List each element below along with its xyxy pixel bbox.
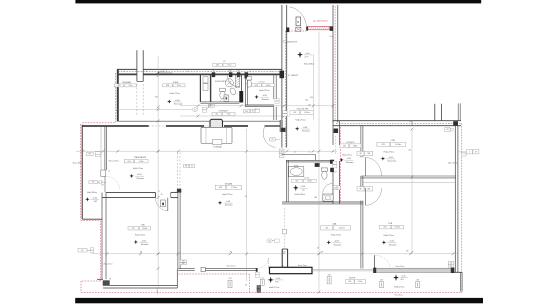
- svg-text:Мозайка: Мозайка: [334, 243, 342, 246]
- red dashed inside cross wall: [336, 122, 462, 124]
- svg-text:ПХД.З.КВ.ЛНЕ: ПХД.З.КВ.ЛНЕ: [297, 108, 309, 110]
- svg-text:ТРАПЕЗАРИЯ: ТРАПЕЗАРИЯ: [134, 156, 147, 159]
- partition wall R1 R2 vertical: [360, 126, 362, 158]
- red dashed step left wing: [82, 122, 115, 124]
- vert dim x313 entry: [312, 54, 314, 120]
- svg-text:Hсм+Юсм: Hсм+Юсм: [394, 295, 403, 297]
- su1 left wall: [244, 75, 246, 105]
- SM box right side: [445, 128, 450, 132]
- svg-text:240: 240: [305, 99, 308, 101]
- SI oval and box: [267, 239, 272, 243]
- lower left wall double: [101, 193, 103, 280]
- bottom left column: [103, 280, 110, 285]
- table komida: [201, 127, 232, 143]
- svg-text:004: 004: [384, 227, 387, 229]
- svg-text:H=A+268см: H=A+268см: [295, 193, 306, 196]
- svg-text:САЛОН: САЛОН: [349, 277, 356, 280]
- bathroom door arc: [323, 184, 332, 194]
- left end cap box: [201, 267, 205, 271]
- glazed parapet right: [376, 268, 453, 272]
- svg-text:-0.08: -0.08: [262, 95, 266, 97]
- dim line hall corridor: [180, 105, 333, 107]
- svg-text:Мозайка: Мозайка: [225, 204, 233, 207]
- svg-text:H=A+275см: H=A+275см: [259, 89, 270, 92]
- svg-text:14.27м²: 14.27м²: [339, 227, 346, 230]
- sill block white with black border: [270, 267, 313, 273]
- svg-text:-0.08: -0.08: [303, 127, 307, 129]
- svg-text:Мозайка: Мозайка: [346, 161, 354, 164]
- trapezaria door symbol box: [161, 200, 166, 207]
- shower room boxes and caption: [208, 104, 214, 107]
- red dashed bottom-left jog: [81, 280, 100, 282]
- jamb boxes lower-left balcony door: [180, 260, 187, 262]
- R1 R2 dividing wall horizontal: [361, 175, 456, 177]
- svg-text:1М9: 1М9: [367, 188, 370, 190]
- left wing door thin jamb line: [104, 176, 106, 192]
- svg-text:-0.08: -0.08: [226, 201, 230, 203]
- svg-text:Имя+55см: Имя+55см: [448, 163, 458, 165]
- entry corner pier: [280, 71, 285, 79]
- shaft piers on top wall: [212, 72, 215, 77]
- shower room right pier black: [239, 91, 243, 103]
- svg-text:+0.00: +0.00: [276, 278, 281, 280]
- svg-text:ДОМОФОН: ДОМОФОН: [288, 40, 298, 43]
- svg-text:Д1: 68х70х9см: Д1: 68х70х9см: [313, 21, 328, 23]
- svg-text:+0.00: +0.00: [401, 276, 406, 278]
- svg-text:295: 295: [155, 97, 158, 99]
- svg-text:H=A+275см: H=A+275см: [295, 119, 306, 122]
- svg-text:0П3: 0П3: [166, 85, 169, 87]
- corner shower hatch: [235, 75, 239, 87]
- svg-text:0П3: 0П3: [382, 144, 385, 146]
- svg-text:0.50: 0.50: [261, 277, 264, 279]
- svg-text:Hсм+55см: Hсм+55см: [396, 266, 405, 268]
- svg-text:H=A+268см: H=A+268см: [304, 63, 315, 66]
- su1 toilet: [247, 77, 252, 80]
- bathroom bottom wall: [282, 201, 363, 203]
- svg-text:2: 2: [469, 151, 470, 153]
- svg-text:СИ: СИ: [269, 241, 271, 243]
- svg-text:11.43м²: 11.43м²: [395, 143, 402, 146]
- red dashed balcony connector: [248, 274, 250, 293]
- svg-text:2.1м²: 2.1м²: [128, 84, 133, 87]
- R1 door leaf and arc: [364, 158, 366, 177]
- main cross wall: [333, 120, 461, 122]
- svg-text:50Е: 50Е: [182, 263, 185, 265]
- svg-text:H=A+275см: H=A+275см: [342, 153, 352, 156]
- svg-text:-0.08: -0.08: [390, 241, 394, 243]
- svg-text:2П: 2П: [334, 187, 336, 189]
- fu box lower left: [78, 248, 87, 252]
- svg-text:БиТ: БиТ: [237, 70, 240, 72]
- svg-text:2Л: 2Л: [108, 171, 110, 173]
- svg-text:Линолеум: Линолеум: [174, 104, 183, 106]
- bathroom door jamb boxes: [333, 186, 337, 190]
- red dashed entry door sill: [286, 30, 307, 32]
- C4 oval and boxes: [192, 108, 198, 112]
- svg-text:+0.08: +0.08: [301, 186, 306, 188]
- window lines in top wall: [158, 72, 172, 74]
- red dashed inside entry left wall: [284, 31, 286, 147]
- svg-text:0П1: 0П1: [216, 65, 219, 67]
- right side dim boxes: [458, 151, 466, 153]
- svg-text:H=A+275см: H=A+275см: [222, 193, 233, 196]
- svg-text:14.93м²: 14.93м²: [394, 226, 400, 229]
- svg-text:0П2: 0П2: [118, 85, 121, 87]
- svg-text:1.71м²: 1.71м²: [227, 64, 232, 67]
- tiny boxes left of sill: [255, 272, 259, 274]
- cross box below leaf: [296, 27, 301, 31]
- svg-text:2П: 2П: [252, 111, 254, 113]
- top exterior wall outer line: [117, 68, 137, 70]
- door dashes in corridor wall: [149, 125, 166, 127]
- svg-text:1.5м²: 1.5м²: [227, 113, 232, 116]
- chimney dashed continuation: [136, 84, 138, 115]
- red dashed balcony upper: [178, 273, 249, 275]
- svg-text:H=A+275см: H=A+275см: [394, 286, 405, 289]
- shower room toilet: [220, 88, 226, 91]
- pier top of right wall: [453, 121, 458, 125]
- svg-text:290: 290: [310, 97, 313, 99]
- svg-text:НВ: НВ: [359, 153, 361, 155]
- svg-text:H=A+271см: H=A+271см: [269, 286, 280, 289]
- svg-text:4П1: 4П1: [275, 282, 278, 284]
- svg-text:H=A+275см: H=A+275см: [384, 151, 395, 154]
- pier below bathroom wall outlined: [281, 249, 283, 267]
- right bottom step wall: [453, 271, 462, 273]
- svg-text:006: 006: [325, 228, 328, 230]
- svg-text:Hсм+70см: Hсм+70см: [298, 265, 307, 267]
- bathroom top thin wall and jog: [282, 154, 316, 156]
- svg-text:H=A+275см: H=A+275см: [135, 233, 146, 236]
- corner shower arc: [228, 75, 240, 87]
- svg-text:H=A+368см: H=A+368см: [87, 191, 97, 194]
- R2 door leaf and arc: [364, 188, 366, 205]
- su1 bottom wall: [245, 104, 274, 106]
- svg-text:249: 249: [280, 155, 283, 157]
- svg-text:Hсм+55см: Hсм+55см: [227, 265, 236, 267]
- svg-text:-0.08: -0.08: [334, 241, 338, 243]
- left wing inner wall jamb box: [101, 170, 106, 176]
- svg-text:КОРИДОР: КОРИДОР: [219, 110, 229, 112]
- shower room door arc: [220, 96, 228, 102]
- lower-left room right wall: [177, 192, 179, 268]
- svg-text:Мозайка: Мозайка: [137, 177, 145, 180]
- svg-text:Имя+368см: Имя+368см: [73, 163, 84, 165]
- svg-text:50Е: 50Е: [380, 280, 383, 282]
- svg-text:249: 249: [101, 184, 104, 186]
- svg-text:НВ: НВ: [359, 188, 361, 190]
- vert dim x158: [157, 71, 160, 74]
- left wing door arc dotted: [106, 176, 120, 189]
- svg-text:008: 008: [219, 187, 222, 189]
- dashed beam over trapezaria opening: [177, 153, 179, 193]
- svg-text:СУ №1: СУ №1: [258, 80, 264, 83]
- svg-text:240: 240: [294, 152, 297, 154]
- svg-text:049: 049: [245, 111, 248, 113]
- svg-text:003: 003: [132, 228, 135, 230]
- washing machine: [323, 194, 333, 201]
- su1 door jamb boxes: [275, 99, 279, 101]
- svg-text:4.82м²: 4.82м²: [266, 84, 271, 87]
- left outer wall: [81, 125, 83, 219]
- corridor bottom thin line: [117, 120, 280, 122]
- svg-text:024: 024: [128, 161, 131, 163]
- door object in corridor doorway: [210, 119, 223, 130]
- svg-text:4П1: 4П1: [401, 279, 404, 281]
- svg-text:КОМИДА: КОМИДА: [213, 145, 222, 148]
- right exterior wall: [454, 126, 456, 273]
- pier below cross wall: [334, 129, 339, 134]
- svg-text:007: 007: [296, 180, 299, 182]
- svg-text:СПА: СПА: [390, 139, 395, 142]
- svg-text:В: В: [297, 20, 299, 24]
- red dashed lower-left wall: [99, 221, 101, 281]
- toilet: [321, 168, 327, 171]
- red window at entry: [308, 26, 330, 29]
- shower room left wall: [210, 75, 212, 102]
- svg-text:26: 26: [191, 165, 193, 167]
- svg-text:011: 011: [215, 114, 218, 116]
- shower room door symbol box: [224, 95, 228, 102]
- left strip labels: [86, 153, 93, 156]
- svg-text:15.40м²: 15.40м²: [304, 111, 310, 114]
- door boxes right of beam: [183, 164, 188, 167]
- top black bar page edge: [75, 0, 481, 3]
- svg-text:50Е: 50Е: [416, 280, 419, 282]
- left wing inner wall: [104, 126, 106, 170]
- entry door leaf: [296, 17, 301, 26]
- thin line under R1 R2 wall: [363, 182, 455, 184]
- top exterior wall inner line: [117, 73, 137, 75]
- svg-text:Линолеум: Линолеум: [387, 161, 396, 163]
- shaft stubs above cross wall: [434, 104, 436, 121]
- left wall of top block: [117, 69, 119, 121]
- shower and closet bottom wall: [200, 101, 239, 103]
- red dashed corridor right wall: [334, 6, 336, 121]
- vert dim x412: [411, 129, 413, 252]
- svg-text:Мозайка: Мозайка: [262, 98, 270, 101]
- red dashed outer left: [80, 124, 82, 220]
- svg-text:1М9: 1М9: [367, 153, 370, 155]
- shower room right wall: [241, 75, 243, 91]
- svg-text:-0.08: -0.08: [347, 158, 351, 160]
- svg-text:H=A+275см: H=A+275см: [384, 234, 395, 237]
- svg-text:БиТ: БиТ: [229, 70, 232, 72]
- small stairs below balcony door: [257, 286, 261, 289]
- red dashed bottom long: [81, 292, 462, 294]
- svg-text:УВ: УВ: [281, 151, 283, 153]
- svg-text:-0.08: -0.08: [141, 240, 145, 242]
- left wing door dim: [97, 182, 106, 184]
- svg-text:БЛ: БЛ: [335, 172, 337, 174]
- chimney: [136, 50, 138, 81]
- left step wall: [82, 218, 102, 220]
- trapezaria south wall band: [106, 191, 155, 193]
- svg-text:4771: 4771: [305, 57, 309, 59]
- vert dim x246: [246, 129, 248, 281]
- svg-text:005: 005: [348, 281, 351, 283]
- svg-text:+0.00: +0.00: [175, 100, 180, 102]
- svg-text:2П: 2П: [271, 139, 273, 141]
- svg-text:С4: С4: [194, 109, 196, 111]
- svg-text:БиТ: БиТ: [212, 70, 215, 72]
- svg-text:9.35м²: 9.35м²: [358, 280, 363, 283]
- dim line lower long: [92, 253, 458, 255]
- balcony front wall segments: [178, 268, 195, 270]
- svg-text:07. ТАМБУР: 07. ТАМБУР: [288, 74, 299, 77]
- bath sink: [289, 167, 304, 177]
- svg-text:±0.00: ±0.00: [137, 174, 142, 176]
- red dashed left upper wall: [114, 73, 116, 123]
- tick below bottom wall: [156, 289, 158, 295]
- svg-text:Имя+275см: Имя+275см: [109, 161, 120, 163]
- svg-text:СИ: СИ: [450, 262, 452, 264]
- su1 right wall: [273, 75, 275, 99]
- balcony door post: [256, 268, 258, 272]
- closet left wall: [199, 75, 201, 102]
- balcony right door leaf and dotted arc: [374, 255, 376, 269]
- dim line corridor lower: [180, 115, 290, 117]
- red dashed step to lower-left: [81, 220, 101, 222]
- hall-R1 dividing wall with door gap: [332, 121, 334, 145]
- red dashed hall-R1 wall: [340, 127, 342, 203]
- R1 door jamb boxes: [357, 151, 364, 155]
- bottom black bar page edge: [75, 298, 483, 303]
- closet shelf boxes: [203, 77, 208, 83]
- red dashed right outer: [461, 123, 463, 293]
- hall door jamb boxes: [279, 149, 284, 153]
- entry door arc: [289, 7, 307, 30]
- bottom left step: [97, 278, 103, 280]
- small box right of wall at y153: [462, 153, 467, 156]
- svg-text:Мозайка: Мозайка: [389, 243, 397, 246]
- svg-text:1в: 1в: [156, 291, 158, 293]
- bathroom left wall: [285, 160, 287, 202]
- svg-text:НК: НК: [109, 278, 111, 280]
- svg-text:17.05м²: 17.05м²: [231, 186, 238, 189]
- dim line top rooms: [118, 108, 196, 110]
- pier above lower-left room right wall: [177, 189, 181, 193]
- shower room sink: [229, 87, 237, 96]
- svg-text:H=A+275см: H=A+275см: [331, 233, 342, 236]
- svg-text:25: 25: [308, 152, 310, 154]
- svg-text:НВ: НВ: [185, 165, 187, 167]
- svg-text:Мозайка: Мозайка: [302, 130, 310, 133]
- svg-text:Мозайка: Мозайка: [141, 243, 149, 246]
- balcony mid door arc and dashed leaf: [257, 258, 268, 268]
- bathroom wall piers: [330, 160, 334, 164]
- svg-text:H=A+275см: H=A+275см: [133, 167, 144, 170]
- entry labels: [284, 40, 286, 42]
- right edge of lower-left protrusion: [176, 269, 178, 288]
- svg-text:ЗХОДНА: ЗХОДНА: [224, 182, 232, 185]
- svg-text:0П6: 0П6: [255, 85, 258, 87]
- svg-text:ПХ0ДНАЯ: ПХ0ДНАЯ: [122, 81, 132, 84]
- svg-text:009: 009: [293, 112, 296, 114]
- svg-text:033: 033: [343, 145, 346, 147]
- svg-text:Реф: Реф: [330, 35, 334, 38]
- svg-text:+0.00: +0.00: [305, 53, 310, 55]
- R2 door jamb boxes: [357, 187, 364, 191]
- bathroom top wall double: [286, 159, 333, 161]
- red dashed inside top wall: [118, 70, 281, 72]
- dim line middle: [76, 150, 337, 152]
- wall segment right of trapezaria door: [171, 191, 178, 193]
- svg-text:СМ: СМ: [314, 197, 317, 199]
- sill end boxes: [448, 261, 453, 264]
- corridor bottom thick line with door gaps: [82, 125, 148, 127]
- corner column end of corridor wall: [279, 120, 281, 132]
- svg-text:КОРИДОР: КОРИДОР: [346, 142, 355, 144]
- svg-text:11.3м²: 11.3м²: [139, 160, 144, 163]
- trapezaria door leaf and arc: [167, 198, 169, 211]
- vert dim x319: [318, 32, 320, 293]
- shower drain circle: [225, 79, 233, 87]
- svg-text:ЮЯ: ЮЯ: [229, 278, 232, 280]
- svg-text:249: 249: [338, 187, 340, 189]
- threshold double line: [313, 268, 376, 270]
- svg-text:-0.08: -0.08: [389, 157, 393, 159]
- svg-text:ВЪЗМ.СМЕТИ: ВЪЗМ.СМЕТИ: [215, 81, 227, 83]
- svg-text:1ОЯ: 1ОЯ: [328, 274, 331, 276]
- door arc corridor to big room: [263, 127, 275, 148]
- upper right wall stub: [457, 103, 459, 120]
- svg-text:H=A+275см: H=A+275см: [170, 92, 181, 95]
- entry corridor left wall double: [281, 5, 283, 148]
- entry corridor right wall: [332, 5, 334, 122]
- svg-text:Имя+37см: Имя+37см: [103, 264, 113, 266]
- svg-text:КОМН: КОМН: [173, 82, 179, 84]
- svg-text:6.7м²: 6.7м²: [177, 84, 182, 87]
- bottom wall of lower-left room: [103, 284, 177, 286]
- svg-text:+0.00: +0.00: [92, 198, 97, 200]
